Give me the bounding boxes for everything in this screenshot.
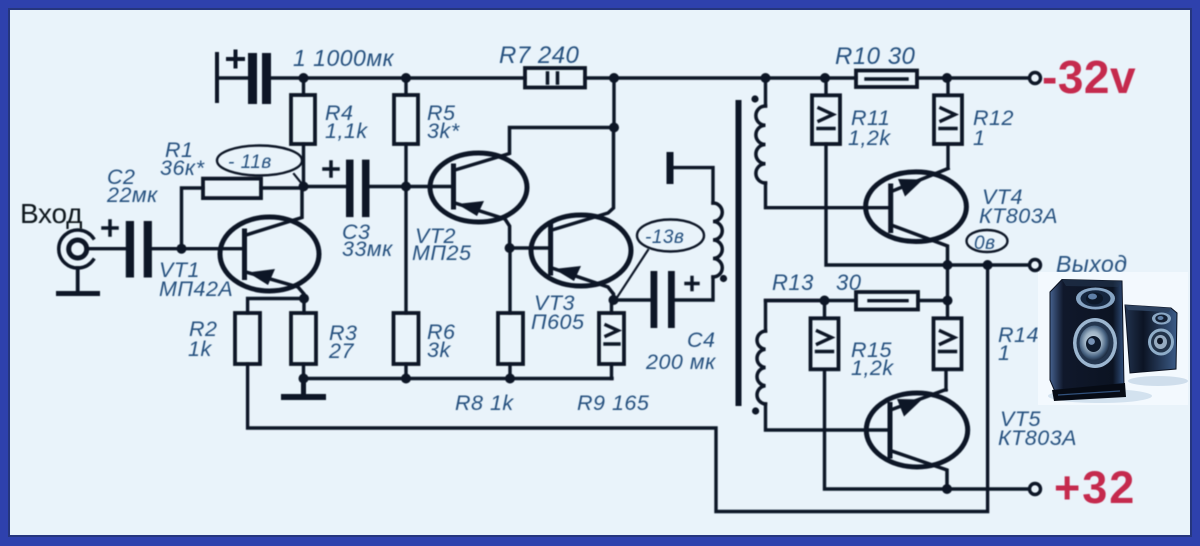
feedback winding phase dot [720, 275, 727, 282]
svg-text:1k: 1k [188, 337, 212, 361]
primary winding top coil [756, 106, 766, 183]
wire R14 bottom to VT5 emitter [944, 369, 947, 390]
capacitor C3 plus sign [324, 162, 338, 176]
resistor R4 body [291, 95, 315, 144]
resistor R13 body [856, 292, 918, 310]
primary winding bottom coil [757, 331, 765, 404]
wire primary bottom to VT5 base [766, 404, 889, 430]
wire R11 bottom to output node [826, 144, 1029, 265]
wire primary top to VT4 base [766, 183, 889, 208]
resistor R6 lead bottom [404, 364, 407, 379]
transistor VT1 collector [246, 187, 302, 235]
wire primary bottom top-lead to R13 node [766, 301, 825, 332]
capacitor C1 plus sign [228, 52, 243, 67]
svg-text:C4: C4 [687, 328, 715, 352]
+32 terminal circle [1030, 484, 1041, 495]
node junction R6 on bus [401, 374, 411, 384]
wire R15 bottom to +32 rail [825, 369, 1030, 489]
node junction VT2 collector line [609, 123, 619, 133]
resistor R11 lead top [824, 78, 827, 95]
node junction VT4 collector / output [943, 260, 953, 270]
big speaker top face [1062, 280, 1122, 288]
transistor VT5 emitter [892, 390, 946, 410]
wire R1 left lead down [182, 188, 204, 249]
resistor R10 body [856, 71, 917, 88]
transistor VT4 emitter [893, 169, 949, 192]
capacitor C4 plus sign [686, 278, 698, 290]
node junction VT2 emitter / VT3 base / R8 [505, 243, 515, 253]
transistor VT4 collector [893, 226, 948, 266]
resistor R2 body [235, 313, 260, 364]
wire emitter node to R2 [248, 299, 304, 314]
resistor R15 lead top [823, 301, 826, 319]
svg-text:МП25: МП25 [412, 241, 472, 265]
annotation oval -13v [616, 220, 704, 300]
transistor VT5 envelope [866, 393, 967, 467]
capacitor C3 plates [346, 160, 370, 218]
wire R5/R6 divider vertical [404, 187, 407, 313]
transistor VT4 emitter arrow [898, 179, 923, 197]
resistor R9 lead bottom [610, 364, 613, 379]
svg-text:МП42А: МП42А [159, 277, 233, 301]
transistor VT1 envelope [220, 217, 319, 291]
svg-text:1,2k: 1,2k [851, 356, 894, 380]
capacitor C1 plates [248, 53, 271, 104]
wire R12 bottom to VT4 emitter [946, 144, 949, 168]
small speaker woofer [1148, 329, 1174, 356]
input jack stem [76, 268, 80, 291]
transistor VT3 base bar [548, 225, 553, 273]
speakers photo backdrop [1038, 272, 1188, 405]
resistor R3 lead bottom [302, 364, 305, 379]
transistor VT2 base bar [451, 166, 456, 207]
svg-text:R10 30: R10 30 [835, 43, 916, 70]
resistor R14 power mark IV [940, 331, 956, 352]
svg-text:+32: +32 [1054, 462, 1136, 513]
primary top phase dot [751, 95, 758, 102]
svg-text:R9 165: R9 165 [577, 391, 650, 415]
transistor VT5 base bar [888, 405, 893, 457]
resistor R9 body [599, 313, 624, 364]
svg-text:Вход: Вход [20, 198, 82, 229]
big speaker cabinet [1050, 280, 1124, 395]
primary bottom phase dot [752, 407, 759, 414]
big speaker tweeter [1076, 288, 1115, 310]
input jack ground bar [56, 291, 100, 296]
svg-text:R8 1k: R8 1k [455, 391, 514, 415]
resistor R12 body [934, 95, 962, 144]
transistor VT3 emitter [552, 268, 614, 300]
transistor VT2 emitter [455, 203, 510, 248]
wire C3 to VT2 base [370, 185, 453, 188]
wire node A row (R4/C3) [304, 185, 347, 188]
-32v terminal circle [1030, 73, 1041, 84]
transistor VT4 base bar [888, 186, 893, 231]
wire VT3 emitter node to C4 [614, 298, 651, 301]
transistor VT1 base bar [242, 231, 247, 278]
wire C2 to VT1 base [152, 247, 243, 250]
input jack XS1 outer ring [59, 230, 94, 268]
svg-text:3k: 3k [427, 338, 451, 362]
transistor VT4 envelope [866, 172, 967, 242]
svg-text:-32v: -32v [1042, 51, 1136, 103]
wire jack to C2 [87, 247, 126, 250]
resistor R15 power mark IV [817, 331, 833, 352]
wire top supply rail middle part [585, 76, 856, 79]
big speaker plinth [1052, 383, 1126, 401]
capacitor C2 plus sign [103, 221, 117, 235]
wire C4 right plate to feedback winding [675, 277, 713, 300]
svg-text:- 11в: - 11в [228, 152, 272, 173]
svg-text:30: 30 [836, 270, 862, 295]
wire primary top lead [764, 78, 767, 106]
ground symbol bar [281, 394, 326, 400]
resistor R5 lead top [404, 78, 407, 95]
svg-text:1,1k: 1,1k [325, 119, 368, 143]
resistor R13 power mark [869, 299, 907, 302]
resistor R10 power mark [866, 77, 907, 80]
node junction VT2 collector line on rail [609, 73, 619, 83]
svg-text:П605: П605 [531, 310, 585, 334]
node junction feedback tap on output [983, 260, 993, 270]
svg-text:22мк: 22мк [106, 183, 158, 207]
node junction VT5 collector on +32 rail [942, 484, 952, 494]
transistor VT3 envelope [531, 215, 631, 286]
node junction R13/R14 [943, 296, 953, 306]
transistor VT1 emitter [246, 272, 304, 299]
resistor R3 lead top [302, 299, 305, 314]
resistor R5 lead bottom [404, 144, 407, 187]
wire VT2 collector node to rail [612, 78, 615, 128]
big speaker woofer [1073, 318, 1117, 368]
wire R1 right lead [261, 186, 304, 189]
svg-text:1: 1 [973, 126, 985, 150]
resistor R11 body [812, 95, 840, 144]
small speaker top face [1125, 305, 1171, 312]
svg-text:200 мк: 200 мк [645, 350, 716, 374]
ground symbol stub [301, 379, 306, 395]
node junction R4/R1/C3/VT1 collector [299, 182, 309, 192]
resistor R15 body [811, 318, 839, 369]
svg-text:36к*: 36к* [160, 156, 205, 180]
node junction VT1 emitter / R2 / R3 [299, 294, 309, 304]
svg-text:1 1000мк: 1 1000мк [293, 45, 395, 71]
node junction VT3 emitter / R9 / C4 [609, 295, 619, 305]
transistor VT5 emitter arrow [897, 399, 922, 417]
svg-text:33мк: 33мк [342, 237, 393, 261]
transistor VT2 collector [455, 128, 614, 171]
wire R13 left from winding node [766, 299, 857, 302]
speakers floor shadow [1048, 389, 1152, 403]
feedback winding open terminal bar [667, 152, 674, 184]
node junction C1/R4 on rail [299, 73, 309, 83]
transistor VT5 collector [892, 451, 947, 489]
output terminal circle [1030, 260, 1041, 271]
wire top supply rail right part [917, 76, 1029, 79]
wire top supply rail left part [270, 76, 525, 79]
small speaker cabinet [1125, 305, 1177, 373]
svg-text:КТ803А: КТ803А [979, 204, 1058, 228]
svg-text:0в: 0в [974, 233, 995, 254]
resistor R5 body [394, 95, 418, 144]
ground bus wire [304, 377, 613, 380]
transistor VT2 envelope [430, 153, 527, 222]
resistor R12 lead top [946, 78, 949, 95]
resistor R8 body [498, 313, 523, 364]
svg-text:R7 240: R7 240 [499, 42, 580, 69]
svg-text:27: 27 [328, 339, 354, 363]
node junction R8 on bus [505, 374, 515, 384]
resistor R8 lead top [508, 248, 511, 313]
transistor VT2 emitter arrow [457, 201, 484, 216]
capacitor C4 plates [651, 271, 675, 328]
node junction base VT1 / R1 [177, 244, 187, 254]
transistor VT3 emitter arrow [554, 266, 581, 281]
wire VT2 emitter node to VT3 base [510, 246, 549, 249]
resistor R14 body [934, 318, 962, 369]
capacitor C2 plates [126, 221, 152, 278]
node junction R5 on rail [401, 73, 411, 83]
resistor R6 body [394, 313, 419, 364]
resistor R3 body [291, 313, 316, 364]
resistor R4 lead top [302, 78, 305, 95]
transistor VT1 emitter arrow [248, 269, 275, 285]
input jack XS1 center pin [69, 240, 87, 258]
annotation oval 0v [967, 230, 1008, 252]
resistor R11 power mark IV [818, 108, 834, 129]
feedback winding L3 coil [713, 203, 722, 277]
node junction R13/R15 [820, 296, 830, 306]
wire R13 right to R14 node [918, 299, 948, 302]
svg-text:R13: R13 [772, 270, 814, 295]
annotation oval -11v [217, 146, 302, 185]
resistor R7 power marks [548, 73, 558, 83]
node junction primary top on rail [761, 73, 771, 83]
resistor R7 body [525, 68, 585, 88]
svg-text:КТ803А: КТ803А [998, 426, 1077, 450]
transistor VT3 collector [552, 128, 614, 231]
resistor R4 lead bottom [302, 144, 305, 187]
node junction R10/R11 on rail [820, 73, 830, 83]
resistor R9 lead top [610, 300, 613, 313]
wire C1 left lead [217, 76, 248, 79]
wire output node down to R14 [946, 265, 949, 318]
svg-text:1: 1 [998, 341, 1010, 365]
wire R2 bottom feedback run [248, 265, 988, 512]
resistor R9 power mark IV [605, 325, 619, 344]
small speaker tweeter [1152, 313, 1171, 325]
svg-text:1,2k: 1,2k [848, 126, 891, 150]
capacitor C1 left terminal stub [215, 54, 219, 101]
svg-text:-13в: -13в [645, 227, 684, 248]
resistor R8 lead bottom [508, 364, 511, 379]
wire feedback winding top lead [674, 168, 713, 203]
resistor R1 body [203, 179, 261, 199]
node junction R10/R12 on rail [942, 73, 952, 83]
transformer T1 core [736, 103, 742, 403]
resistor R12 power mark IV [940, 108, 956, 129]
big speaker plinth slot [1058, 391, 1120, 395]
svg-text:3k*: 3k* [427, 119, 460, 143]
node junction C3/R5/R6/VT2 base [401, 182, 411, 192]
node junction R3 on bus [299, 374, 309, 384]
